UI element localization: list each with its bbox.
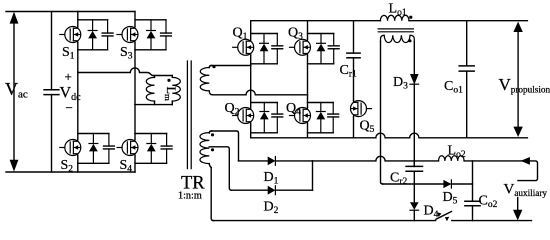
- svg-text:D1: D1: [264, 170, 279, 187]
- svg-text:S3: S3: [120, 45, 133, 62]
- wire secondary1 top lead: [212, 65, 251, 67]
- diode S2 body: [89, 143, 98, 145]
- capacitor Vdc: [51, 12, 53, 90]
- svg-text:Q5: Q5: [360, 119, 375, 136]
- Q3 cell frame: [308, 33, 334, 35]
- capacitor Q3 snubber: [328, 45, 339, 47]
- transistor Q2: [238, 108, 254, 124]
- transformer secondary winding 1: [209, 66, 211, 68]
- wire propulsion bottom rail: [251, 133, 528, 138]
- wire Cr2 bottom line: [383, 183, 444, 185]
- diode S4 body: [147, 143, 156, 145]
- Lo1 dot a: [409, 16, 412, 19]
- transformer core: [186, 61, 188, 169]
- capacitor Co2: [472, 161, 474, 201]
- inductor Lo2: [439, 156, 465, 161]
- wire bottom input rail: [6, 171, 135, 173]
- Q2 cell frame: [251, 102, 278, 104]
- diode S1 body: [88, 30, 97, 32]
- svg-text:Vac: Vac: [5, 79, 28, 101]
- wire top input rail: [6, 11, 135, 13]
- wire secondary1 bottom lead: [213, 90, 308, 95]
- secondary2 dot lower: [211, 148, 214, 151]
- transistor Q4: [295, 108, 311, 124]
- diode D5: [443, 180, 451, 188]
- transistor S2: [65, 140, 81, 156]
- svg-text:Vauxiliary: Vauxiliary: [504, 182, 548, 199]
- diode Q2 body: [260, 111, 269, 113]
- svg-text:Lo1: Lo1: [389, 2, 407, 19]
- svg-text:Co2: Co2: [479, 194, 498, 211]
- svg-text:Q3: Q3: [288, 26, 303, 43]
- secondary2 dot upper: [211, 133, 214, 136]
- capacitor Cr1: [353, 21, 355, 53]
- svg-text:−: −: [66, 100, 73, 115]
- inductor Lo1 winding b: [381, 35, 415, 42]
- wire aux line after Lo2: [464, 161, 537, 181]
- svg-text:Q4: Q4: [286, 101, 301, 118]
- svg-text:Q2: Q2: [225, 101, 240, 118]
- wire secondary2 top lead: [212, 131, 239, 161]
- svg-text:Vpropulsion: Vpropulsion: [499, 75, 550, 95]
- switch blade: [436, 211, 452, 219]
- secondary1 dot: [212, 65, 215, 68]
- wire primary bottom: [135, 104, 172, 106]
- svg-text:D5: D5: [443, 190, 458, 207]
- wire secondary2 bottom lead: [211, 168, 213, 221]
- capacitor S2 snubber: [104, 145, 115, 147]
- transformer secondary winding 2: [209, 131, 211, 133]
- diode Q1 body: [260, 42, 269, 44]
- svg-text:D3: D3: [393, 75, 408, 92]
- svg-text:Q1: Q1: [233, 26, 248, 43]
- svg-text:S2: S2: [61, 158, 74, 175]
- svg-text:1:n:m: 1:n:m: [178, 191, 202, 202]
- transistor Q3: [295, 39, 311, 55]
- transistor Q1: [238, 39, 254, 55]
- svg-text:S4: S4: [120, 158, 133, 175]
- svg-text:D2: D2: [264, 200, 279, 217]
- svg-text:+: +: [65, 69, 72, 84]
- S1 cell frame: [78, 19, 108, 21]
- diode D1: [239, 160, 268, 162]
- arrow aux current: [521, 157, 530, 165]
- Q5 column bottom: [353, 117, 355, 138]
- inductor Lm magnetizing: [154, 76, 156, 78]
- Lo1 dot b: [408, 39, 411, 42]
- capacitor Co1: [466, 21, 468, 66]
- capacitor S4 snubber: [161, 145, 172, 147]
- wire D2 riser: [312, 161, 314, 190]
- transistor S3: [122, 27, 138, 43]
- wire Lo1b right column to D3: [413, 42, 415, 74]
- capacitor Q2 snubber: [272, 113, 283, 115]
- voltage arrow Vauxiliary: [517, 198, 519, 212]
- S3 cell frame: [135, 19, 166, 21]
- capacitor Cr2: [413, 161, 415, 167]
- svg-text:D4: D4: [424, 204, 439, 221]
- capacitor S1 snubber: [102, 32, 113, 34]
- Lo1 core: [378, 28, 413, 30]
- S4 cell frame: [135, 133, 167, 135]
- transistor S1: [65, 27, 81, 43]
- wire aux line: [313, 156, 439, 161]
- svg-text:Cr1: Cr1: [340, 63, 358, 80]
- wire Lo1b left column: [381, 42, 383, 185]
- voltage source Vac arrow: [13, 21, 15, 163]
- wire secondary2 center tap: [209, 147, 231, 190]
- wire aux bottom rail right: [452, 220, 532, 222]
- inductor Lo1 winding a: [380, 15, 409, 20]
- S2 cell frame: [78, 133, 109, 135]
- primary dot: [167, 79, 170, 82]
- voltage arrow Vpropulsion: [517, 30, 519, 130]
- capacitor Q4 snubber: [328, 113, 339, 115]
- diode Q3 body: [317, 42, 326, 44]
- capacitor S3 snubber: [161, 32, 172, 34]
- diode D3: [413, 84, 415, 166]
- transistor Q5: [351, 101, 367, 117]
- Q1 cell frame: [251, 33, 278, 35]
- diode S3 body: [147, 30, 156, 32]
- wire top rail right: [409, 20, 527, 22]
- diode D4: [410, 202, 419, 210]
- diode Q4 body: [316, 111, 325, 113]
- wire secondary top rail: [251, 20, 381, 22]
- svg-text:Co1: Co1: [444, 79, 463, 96]
- wire bridge mid node: [78, 68, 173, 76]
- transformer primary winding: [171, 76, 173, 78]
- wire aux bottom rail left: [213, 220, 435, 222]
- transistor S4: [122, 140, 138, 156]
- svg-text:S1: S1: [62, 45, 75, 62]
- capacitor Q1 snubber: [272, 45, 283, 47]
- diode D2: [232, 189, 268, 191]
- Q4 cell frame: [308, 102, 334, 104]
- svg-text:Lo2: Lo2: [448, 144, 466, 161]
